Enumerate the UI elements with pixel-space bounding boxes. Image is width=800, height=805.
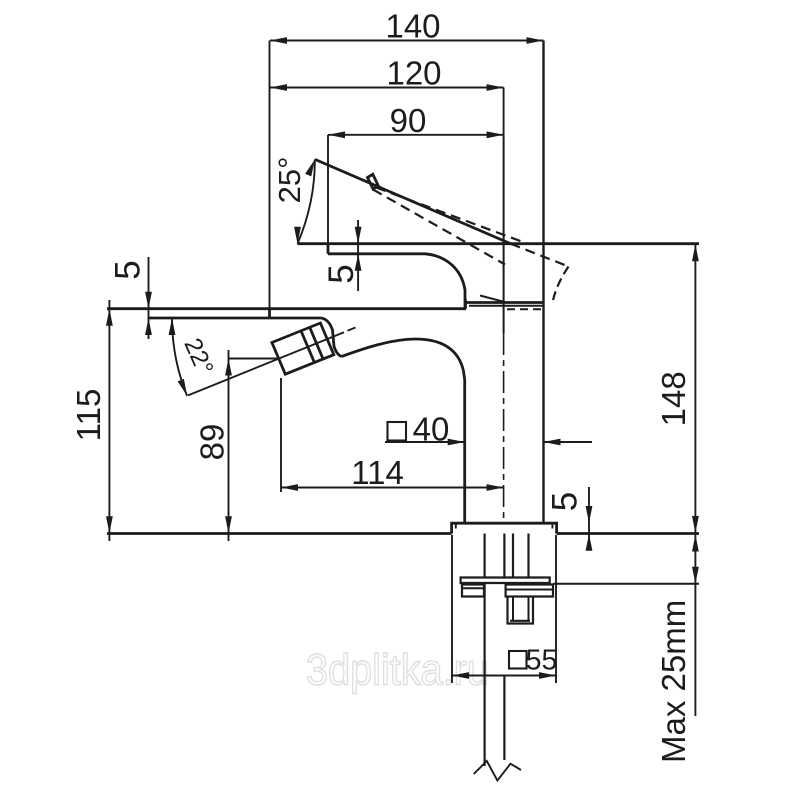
dim line sq55 <box>452 675 556 677</box>
deck top line right <box>557 532 699 535</box>
extension line 90 left, down to lever tip <box>327 135 329 244</box>
supply hose left edge upper <box>484 534 486 578</box>
body top line <box>466 301 544 304</box>
label Max 25mm rotated <box>655 600 692 763</box>
arrow 148-top <box>692 244 699 261</box>
base plate outline <box>452 523 557 533</box>
arrow 115-top <box>106 309 113 326</box>
svg-text:89: 89 <box>194 424 231 461</box>
dim line 90 <box>328 134 504 136</box>
svg-text:148: 148 <box>655 371 692 426</box>
arrow sq40-left <box>448 439 465 446</box>
stud inner left line <box>512 597 514 622</box>
raised lever dashed top continuation <box>511 244 569 267</box>
svg-text:55: 55 <box>526 645 558 677</box>
dim line 89 <box>228 350 230 541</box>
arrow 5BR-bottom <box>586 534 593 551</box>
arrow 5R-bottom <box>355 254 362 271</box>
arc 25 degrees <box>298 159 315 243</box>
pointer line 89 to aerator <box>229 358 279 360</box>
hose break zigzag <box>474 761 521 781</box>
threaded shank left edge <box>512 534 514 578</box>
spout top line A <box>107 307 466 310</box>
body top second line <box>469 305 544 307</box>
dim line 140 <box>270 40 544 42</box>
dim line sq40 right part <box>544 441 593 443</box>
arrow arc25-top <box>305 159 315 176</box>
arrow 114-right <box>487 484 504 491</box>
label 25 degrees rotated <box>272 156 307 203</box>
small solid diagonal at pivot <box>480 296 507 303</box>
bracket left end block <box>462 585 484 597</box>
stud inner right line <box>528 597 530 622</box>
arrow arc22-bottom <box>178 379 188 396</box>
nut inner line <box>506 589 553 591</box>
svg-text:Max 25mm: Max 25mm <box>655 600 692 763</box>
raised lever top edge 25deg <box>315 159 511 243</box>
extension line 114 left <box>280 378 282 492</box>
svg-text:25°: 25° <box>272 156 307 203</box>
stud bottom cap <box>510 620 530 622</box>
mounting horseshoe bracket <box>461 578 550 584</box>
supply hose right edge upper <box>503 534 505 578</box>
step tick at x=466 <box>464 300 467 309</box>
svg-text:5: 5 <box>546 492 585 511</box>
arrow max25-bottom <box>692 567 699 584</box>
svg-text:3dplitka.ru: 3dplitka.ru <box>306 646 489 695</box>
label 148 rotated <box>655 371 692 426</box>
svg-text:5: 5 <box>109 260 148 279</box>
arrow 115-bottom <box>106 516 113 533</box>
extension line sq55 right <box>555 535 557 683</box>
aerator division 1 <box>301 331 314 363</box>
square symbol for 40 <box>388 422 407 441</box>
arrow 5L-top <box>145 292 152 309</box>
body sweep curve <box>342 339 465 524</box>
raised lever tip box <box>368 174 379 189</box>
extension+centerline x=503.6 upper <box>503 88 505 137</box>
arrow 140-left <box>270 37 287 44</box>
mounting nut <box>506 585 553 597</box>
deck top line left <box>107 532 452 535</box>
svg-text:114: 114 <box>351 454 404 491</box>
label 5 right rotated <box>322 264 361 283</box>
svg-text:140: 140 <box>385 8 440 45</box>
dim line 5 bottom-right <box>588 487 590 545</box>
dim line sq40 left part <box>385 441 465 443</box>
supply hose right edge lower <box>503 676 505 760</box>
arrow arc22-top <box>169 318 176 335</box>
square symbol for 55 <box>509 651 527 669</box>
hidden dashed line under body top <box>507 308 541 310</box>
label 89 rotated <box>194 424 231 461</box>
arrow sq55-right <box>539 672 556 679</box>
arrow 140-right <box>527 37 544 44</box>
aerator axis dash <box>348 328 356 331</box>
arrow 90-left <box>328 131 345 138</box>
arrow 148-bottom <box>692 516 699 533</box>
arrow 5R-top <box>355 227 362 244</box>
arrow arc25-bottom <box>294 227 301 244</box>
label 22 degrees rotated <box>178 334 218 379</box>
extension line sq55 left <box>451 535 453 683</box>
svg-text:5: 5 <box>322 264 361 283</box>
lever top line / 148 extension <box>298 242 700 245</box>
arrow 90-right <box>487 131 504 138</box>
base plate tick left <box>455 523 457 528</box>
arrow 114-left <box>281 484 298 491</box>
svg-text:90: 90 <box>390 102 427 139</box>
aerator box <box>272 323 334 374</box>
lever tip face <box>327 244 330 254</box>
dim line 114 <box>281 487 504 489</box>
arrow 5L-bottom <box>145 318 152 335</box>
column back edge / 140 extension <box>542 41 544 524</box>
centerline of faucet column <box>503 136 505 333</box>
dim line 5 right <box>357 220 359 291</box>
raised lever dashed inner edge <box>376 188 527 244</box>
raised lever dashed end face <box>553 267 569 303</box>
spout tip face <box>268 309 271 318</box>
supply hose left edge lower <box>484 583 486 766</box>
threaded stud outline <box>508 597 534 624</box>
arrow max25-top <box>692 535 699 552</box>
spout shoulder curve <box>321 318 341 357</box>
arrow sq55-left <box>452 672 469 679</box>
base plate tick right <box>551 523 553 528</box>
label 115 rotated <box>70 389 107 442</box>
lever bottom line <box>328 254 465 309</box>
label 5 bottom-right rotated <box>546 492 585 511</box>
label 5 left rotated <box>109 260 148 279</box>
svg-text:40: 40 <box>413 411 450 448</box>
svg-text:115: 115 <box>70 389 107 442</box>
arrow 89-top <box>225 359 232 376</box>
aerator axis line <box>188 332 344 395</box>
svg-text:120: 120 <box>386 55 441 92</box>
deck bottom line (max 25mm) <box>553 583 699 585</box>
aerator division 2 <box>310 327 323 359</box>
arrow sq40-right <box>544 439 561 446</box>
arc 22 degrees <box>172 318 187 396</box>
raised lever dashed bottom edge <box>373 190 505 265</box>
arrow 5BR-top <box>586 506 593 523</box>
arrow 120-left <box>270 84 287 91</box>
spout bottom line B <box>149 317 322 320</box>
dim line 120 <box>270 87 504 89</box>
dim line 148 and Max25mm <box>694 244 696 716</box>
dim line 5 left <box>148 257 150 339</box>
arrow 89-bottom <box>225 516 232 533</box>
bracket left block inner line <box>462 587 484 589</box>
arrow 120-right <box>487 84 504 91</box>
extension line left x=269.5 <box>269 41 271 310</box>
dim line 115 <box>108 300 110 541</box>
threaded shank right edge <box>527 534 529 578</box>
